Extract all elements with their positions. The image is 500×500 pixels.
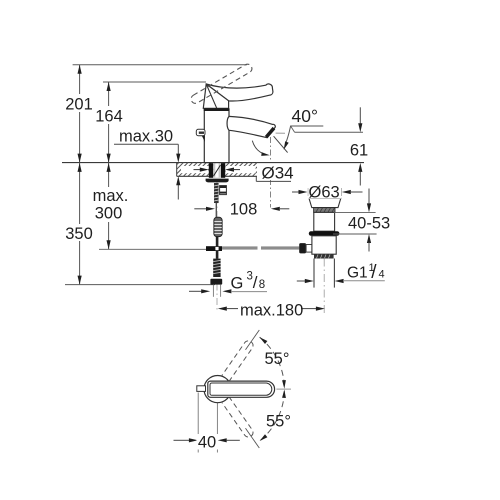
svg-text:40: 40 [198,434,216,452]
hose nut offset [220,186,227,195]
dim 350 rail below counter [79,163,81,285]
mounting flange below counter [206,179,229,183]
dim max300 extension line [99,248,207,250]
dim 40 [174,439,190,441]
ext line center [216,403,218,453]
pop-up knob on body [196,129,205,135]
counter hatch [165,163,266,177]
plug seat band [314,208,335,213]
svg-text:/: / [253,273,258,292]
drain flange [309,198,341,207]
svg-text:Ø63: Ø63 [309,184,340,202]
label O34 [259,165,296,181]
label 61 [347,141,371,158]
dim G1 1/4 [297,280,306,282]
O34 leader underline [256,180,291,182]
label 40 bottom [197,434,219,450]
label O63 [308,185,341,199]
svg-text:40-53: 40-53 [348,215,390,233]
dim 108 [194,208,208,210]
svg-text:108: 108 [230,201,258,219]
dim O63 [307,188,309,196]
bottom band [314,254,334,258]
svg-text:55°: 55° [266,413,291,431]
svg-text:max.: max. [93,187,129,205]
lever solid [206,84,273,101]
waste body upper [314,212,335,231]
O-ring [309,231,340,236]
ext line flange bottom [334,211,376,213]
stream direction line [274,136,288,152]
lever top view [208,381,275,397]
G38 tails [212,285,214,297]
dim 201 rail [79,65,81,163]
label 164 [94,107,124,123]
svg-text:61: 61 [350,142,368,160]
dim G38 arrows [189,290,202,292]
svg-text:201: 201 [65,96,93,114]
svg-text:300: 300 [95,205,123,223]
faucet body [204,109,229,163]
arc arrowhead upper far [260,337,268,344]
lever dashed up [221,341,253,382]
axis extension upper [246,330,260,350]
tailpipe [313,259,315,288]
svg-text:4: 4 [379,269,385,281]
svg-text:max.30: max.30 [119,128,173,146]
arc arrowhead upper mid [282,380,286,389]
extension line 164 level [103,81,206,83]
swivel arc arrow [252,141,263,154]
55 arc upper [260,337,285,387]
dim O34 arrows [194,169,202,171]
hose capsule [214,217,222,236]
vertical rod through tee [216,237,219,259]
arc arrowhead lower mid [282,390,286,399]
40deg leader [286,126,324,144]
ext line tab [197,393,199,453]
counter left edge [176,163,178,177]
label 201 [65,95,93,111]
dim 164 rail [108,82,110,163]
threaded stud [214,183,219,203]
label 350 [64,225,94,241]
centerline right of lever [276,388,291,390]
rod knob [299,243,306,253]
label max. 300 [92,188,129,221]
tee connector [206,246,222,251]
spout [227,116,275,137]
dim max30 underline and rail [114,143,178,145]
shank dark bars [209,163,213,178]
G38 hex nut [210,279,222,285]
dim 350 extension line [65,284,215,286]
dim 40-53 [368,189,370,205]
svg-text:164: 164 [95,108,123,126]
extension line top 201 level [73,64,247,66]
thin rod [215,203,217,217]
stream centerline dashed [270,137,272,162]
aerator tip [265,127,275,138]
waste body lower [312,236,336,254]
cartridge prism [203,84,228,108]
axis extension lower [246,428,260,448]
lever raised dashed [191,64,252,103]
lever dashed down [221,397,253,437]
svg-text:55°: 55° [265,350,290,368]
tab top view [197,386,206,392]
counter bottom line [177,175,257,177]
rod stem [306,245,314,253]
svg-text:8: 8 [259,279,265,291]
joint band [204,108,229,111]
pop-up rod segment 1 [222,246,258,249]
counter top line [62,162,364,164]
drain centerline [323,259,325,314]
svg-text:G: G [231,275,244,293]
outlet level line [295,131,363,133]
svg-text:40°: 40° [292,106,318,126]
pop-up rod segment 2 [261,246,299,249]
faucet centerline below counter [216,182,218,310]
dim max180 [218,307,227,311]
ext line oring level [333,233,377,235]
svg-text:Ø34: Ø34 [262,163,294,182]
dim max300 rail below counter [108,163,110,249]
G38 threaded tail [213,259,220,277]
svg-text:/: / [371,262,377,283]
svg-text:350: 350 [65,225,93,243]
arc arrowhead lower far [260,434,268,441]
55 arc lower [260,391,285,441]
dim 61 rail [359,107,361,124]
svg-text:G1: G1 [347,265,368,282]
svg-text:max.180: max.180 [240,301,303,319]
white mask for O34 arrows [181,166,208,173]
body circle top view [204,376,231,403]
